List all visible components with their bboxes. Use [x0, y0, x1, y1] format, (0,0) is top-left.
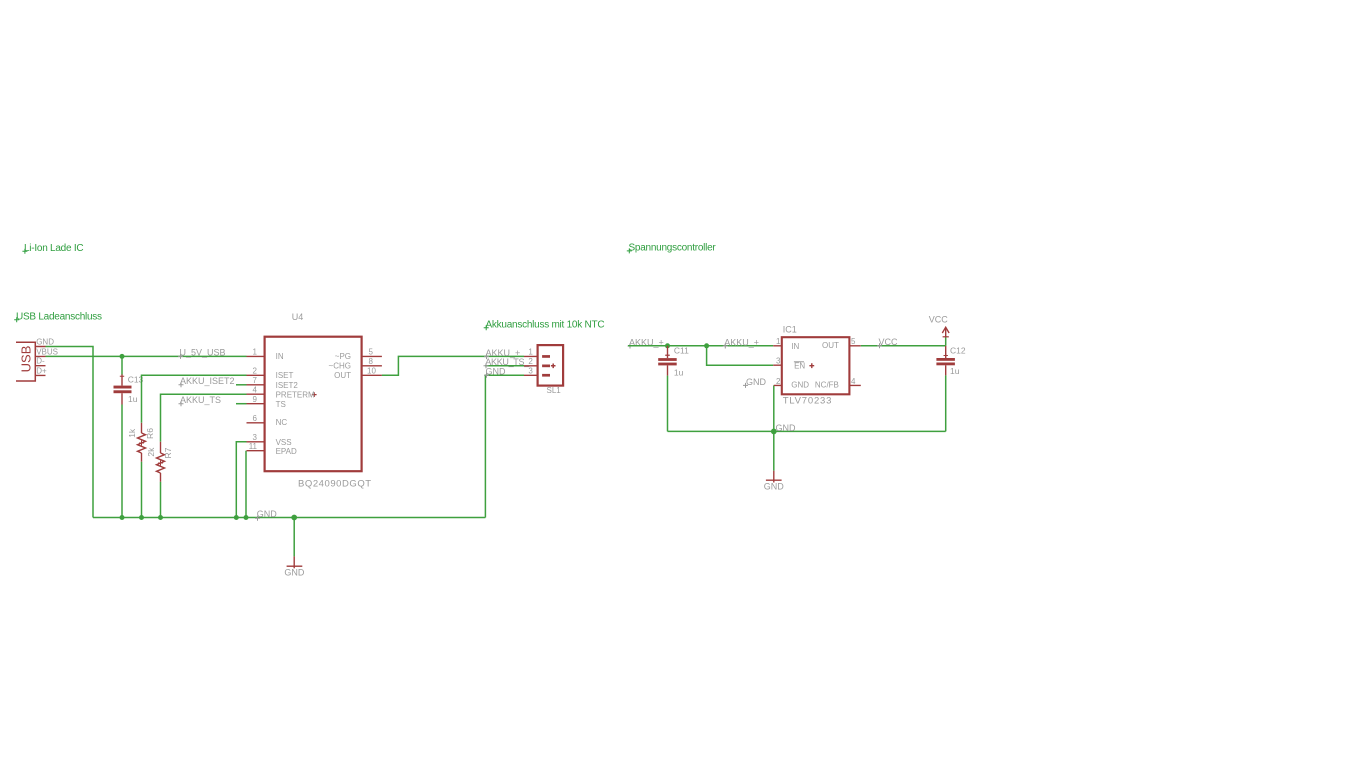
svg-text:D-: D-	[36, 357, 45, 366]
U4 pin numbers right	[367, 348, 376, 376]
svg-text:11: 11	[249, 442, 258, 451]
IC1 right pin stubs	[849, 346, 860, 386]
SL1 pin numbers	[528, 348, 533, 376]
svg-text:1: 1	[776, 337, 781, 346]
svg-text:IN: IN	[276, 352, 284, 361]
svg-text:8: 8	[369, 357, 374, 366]
svg-text:1u: 1u	[950, 366, 960, 376]
svg-text:4: 4	[253, 385, 258, 394]
svg-text:IN: IN	[791, 342, 799, 351]
net label AKKU_+ at SL1	[484, 348, 520, 359]
svg-text:9: 9	[253, 395, 258, 404]
svg-text:USB Ladeanschluss: USB Ladeanschluss	[16, 312, 102, 323]
EN overline	[794, 361, 804, 363]
svg-text:1k: 1k	[127, 428, 137, 438]
IC U4 body BQ24090DGQT	[265, 337, 362, 472]
svg-text:5: 5	[369, 348, 374, 357]
wire down to right GND symbol	[773, 431, 775, 470]
svg-text:Li-Ion Lade IC: Li-Ion Lade IC	[24, 243, 83, 254]
svg-text:R6: R6	[145, 428, 155, 439]
svg-text:GND: GND	[776, 423, 797, 433]
U4 origin cross	[312, 392, 317, 397]
wire AKKU_+ to IC1 pin1	[628, 345, 773, 347]
U4 pin numbers left	[249, 348, 258, 451]
svg-text:GND: GND	[284, 567, 305, 577]
wire U4 pin4 to R7	[161, 394, 247, 442]
svg-text:GND: GND	[764, 481, 785, 491]
svg-text:AKKU_TS_: AKKU_TS_	[485, 357, 530, 367]
svg-text:R7: R7	[163, 447, 173, 458]
capacitor C11	[658, 345, 689, 431]
svg-text:2: 2	[776, 377, 781, 386]
svg-text:1: 1	[253, 348, 258, 357]
comment text "Li-Ion Lade IC"	[22, 243, 83, 254]
svg-text:ISET: ISET	[276, 371, 294, 380]
connector X? USB symbol body	[16, 337, 58, 381]
connector SL1 pin lines	[524, 356, 538, 375]
svg-text:IC1: IC1	[783, 325, 797, 335]
comment text "Spannungscontroller"	[627, 243, 717, 254]
svg-text:5: 5	[851, 337, 856, 346]
svg-text:3: 3	[528, 367, 533, 376]
comment text "Akkuanschluss mit 10k NTC"	[484, 320, 605, 331]
net label U_5V_USB	[178, 348, 226, 359]
comment text "USB Ladeanschluss"	[14, 312, 102, 323]
svg-text:~CHG: ~CHG	[329, 361, 351, 370]
wire U4 pin11 EPAD to rail	[245, 451, 247, 518]
svg-text:GND: GND	[36, 337, 54, 346]
wire GND from USB to rail	[46, 347, 94, 518]
svg-text:VBUS: VBUS	[36, 347, 58, 356]
ground symbol right	[764, 471, 785, 492]
svg-text:TLV70233: TLV70233	[783, 396, 833, 407]
svg-text:D+: D+	[36, 366, 47, 375]
svg-text:Akkuanschluss mit 10k NTC: Akkuanschluss mit 10k NTC	[486, 320, 605, 331]
USB pin stubs GND VBUS D- D+	[35, 347, 45, 376]
resistor R7 2k	[146, 442, 173, 518]
net label VCC	[877, 337, 898, 348]
junction at C11	[665, 343, 670, 348]
IC U4 right pin stubs 5 8 10	[362, 356, 382, 375]
svg-text:6: 6	[253, 414, 258, 423]
svg-text:U_5V_USB: U_5V_USB	[180, 348, 226, 358]
svg-text:BQ24090DGQT: BQ24090DGQT	[298, 478, 372, 489]
wire IC1 pin2 GND down to rail	[773, 385, 775, 431]
svg-text:4: 4	[851, 377, 856, 386]
svg-text:NC/FB: NC/FB	[815, 381, 839, 390]
svg-text:ISET2: ISET2	[276, 381, 299, 390]
net stub AKKU_TS_2 at SL1 pin2	[484, 357, 531, 368]
svg-text:1u: 1u	[128, 394, 138, 404]
net label GND at IC1 pin2	[743, 377, 767, 388]
svg-text:C11: C11	[674, 345, 689, 355]
svg-text:GND: GND	[257, 509, 278, 519]
net label AKKU_+ left	[628, 337, 664, 348]
wire to GND symbol	[293, 518, 295, 557]
net label AKKU_+ right	[723, 337, 759, 348]
svg-text:VSS: VSS	[276, 438, 292, 447]
GND rail right section	[668, 430, 946, 432]
wire IC1 OUT to VCC/C12	[861, 345, 946, 347]
wire U4 pin2 to R6	[142, 375, 247, 423]
svg-text:AKKU_ISET2: AKKU_ISET2	[180, 376, 235, 386]
svg-text:AKKU_TS: AKKU_TS	[180, 395, 221, 405]
IC1 pin numbers	[776, 337, 781, 386]
wire U4 pin10 OUT to SL1 pin1	[382, 356, 524, 375]
svg-text:EN: EN	[794, 361, 805, 370]
svg-text:2: 2	[528, 357, 533, 366]
svg-text:GND: GND	[791, 381, 809, 390]
IC IC1 body TLV70233	[782, 337, 850, 394]
svg-text:U4: U4	[292, 312, 304, 322]
net stub AKKU_ISET2 at U4 pin7	[179, 376, 247, 387]
svg-text:OUT: OUT	[822, 341, 839, 350]
svg-text:EPAD: EPAD	[276, 447, 297, 456]
junction at EN branch	[704, 343, 709, 348]
svg-text:~PG: ~PG	[335, 352, 351, 361]
capacitor C12	[936, 345, 965, 431]
svg-text:GND: GND	[746, 377, 767, 387]
wire branch to IC1 pin3 EN	[707, 346, 774, 365]
wire VBUS / net U_5V_USB to U4 pin1	[46, 355, 247, 357]
resistor R6 1k	[127, 423, 155, 518]
U4 pin names	[276, 352, 315, 456]
svg-text:SL1: SL1	[547, 386, 562, 395]
supply symbol VCC	[929, 314, 949, 337]
net label GND at SL1 pin3	[484, 367, 506, 378]
svg-text:Spannungscontroller: Spannungscontroller	[629, 243, 717, 254]
svg-text:TS: TS	[276, 400, 286, 409]
svg-text:3: 3	[253, 433, 258, 442]
capacitor C13	[114, 356, 144, 517]
svg-text:1: 1	[528, 348, 533, 357]
IC1 left pin stubs	[773, 346, 782, 386]
IC U4 left pin stubs	[247, 356, 265, 450]
svg-text:NC: NC	[276, 418, 288, 427]
svg-text:10: 10	[367, 366, 376, 375]
svg-text:3: 3	[776, 357, 781, 366]
svg-text:2k: 2k	[146, 447, 156, 457]
svg-text:2: 2	[253, 367, 258, 376]
svg-text:OUT: OUT	[334, 371, 351, 380]
GND rail left section	[93, 517, 485, 519]
ground symbol left	[284, 556, 305, 577]
svg-text:USB: USB	[18, 346, 33, 373]
wire U4 pin3 VSS to rail	[236, 442, 246, 518]
IC1 origin cross	[809, 363, 814, 368]
rail junction dots	[120, 515, 125, 520]
wire up to VCC symbol	[945, 338, 947, 346]
IC1 pin names	[791, 342, 809, 390]
svg-text:C12: C12	[950, 345, 966, 355]
svg-text:7: 7	[253, 376, 258, 385]
svg-text:PRETERM: PRETERM	[276, 391, 315, 400]
net stub AKKU_TS at U4 pin9	[179, 395, 247, 406]
svg-text:VCC: VCC	[929, 314, 949, 324]
connector SL1 body	[538, 345, 564, 395]
junction on VBUS at C13	[120, 354, 125, 359]
svg-text:AKKU_+: AKKU_+	[724, 337, 759, 347]
wire GND from SL1 pin3 down to rail	[485, 375, 524, 517]
svg-text:1u: 1u	[674, 368, 684, 378]
net label GND on rail	[255, 509, 277, 521]
junction on right rail	[771, 429, 777, 435]
